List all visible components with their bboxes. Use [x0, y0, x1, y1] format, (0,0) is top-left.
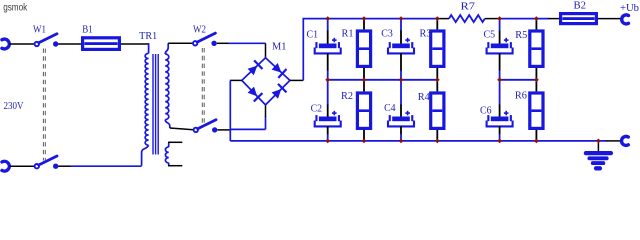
- wire C4 top lead: [400, 80, 402, 105]
- capacitor C3: [405, 39, 410, 41]
- wire to bridge AC top: [265, 43, 267, 58]
- svg-text:R6: R6: [515, 91, 527, 102]
- svg-text:C3: C3: [381, 29, 393, 40]
- svg-text:R3: R3: [420, 29, 432, 40]
- wire R5 bottom lead: [535, 68, 537, 80]
- resistor R1: [357, 31, 370, 66]
- mechanical link W1 (dashed): [42, 49, 44, 161]
- wire fuse B2 to +Ub terminal: [598, 18, 622, 20]
- wire rail to fuse B2: [549, 18, 560, 20]
- resistor R4: [431, 93, 444, 128]
- wire C2 bottom lead: [327, 126, 329, 134]
- wire input top to W1: [10, 43, 35, 45]
- wire input bottom to W1: [10, 165, 35, 167]
- wire C4 bottom lead: [400, 126, 402, 134]
- transformer TR1 core: [152, 54, 154, 155]
- wire R4 top lead: [436, 80, 438, 92]
- capacitor C2: [332, 112, 337, 114]
- capacitor C4: [405, 112, 410, 114]
- wire C2 top lead: [327, 80, 329, 105]
- wire C3 bottom lead: [400, 53, 402, 71]
- svg-text:B1: B1: [82, 25, 93, 36]
- stub wire auxiliary bottom: [168, 165, 182, 167]
- wire C6 top lead: [499, 80, 501, 105]
- svg-text:R1: R1: [342, 29, 354, 40]
- wire R1 bottom lead: [363, 68, 365, 80]
- diode M1 upper-left: [248, 66, 258, 76]
- resistor R3: [431, 31, 444, 66]
- transformer TR1 primary winding: [148, 43, 150, 53]
- wire C1 bottom lead: [327, 53, 329, 71]
- wire C5 bottom lead: [499, 53, 501, 71]
- switch W2 pole B: [194, 128, 198, 132]
- top rail (+): [303, 18, 440, 20]
- svg-text:R5: R5: [515, 30, 527, 41]
- diode M1 upper-right: [272, 63, 282, 73]
- svg-text:B2: B2: [574, 1, 587, 12]
- fuse B1: [83, 38, 120, 50]
- svg-text:R4: R4: [418, 92, 430, 103]
- wire R4 bottom lead: [436, 130, 438, 141]
- resistor R6: [530, 93, 543, 128]
- middle rail segment 1: [328, 79, 438, 81]
- svg-text:W2: W2: [193, 24, 206, 35]
- terminal +Ub: [622, 15, 629, 24]
- svg-text:C4: C4: [384, 103, 396, 114]
- wire R2 bottom lead: [363, 130, 365, 141]
- wire C5 top lead: [499, 19, 501, 31]
- wire bridge minus to bottom rail: [230, 79, 242, 81]
- svg-text:W1: W1: [33, 24, 46, 35]
- wire C6 bottom lead: [499, 126, 501, 134]
- switch W1 pole A: [35, 42, 39, 46]
- svg-text:C2: C2: [311, 103, 323, 114]
- wire C1 top lead: [327, 19, 329, 31]
- junction dots top rail: [325, 16, 330, 21]
- diode M1 lower-right: [272, 89, 282, 99]
- wire R1 top lead: [363, 19, 365, 30]
- wire R3 top lead: [436, 19, 438, 30]
- wire fuse B1 to transformer: [121, 43, 149, 45]
- capacitor C1: [332, 39, 337, 41]
- wire secondary to W2 bottom: [170, 128, 193, 130]
- wire W2 top to bridge (blue): [229, 42, 266, 44]
- svg-text:R7: R7: [461, 2, 476, 13]
- transformer TR1 auxiliary winding: [168, 143, 170, 147]
- svg-text:+Ub: +Ub: [620, 3, 639, 14]
- wire R3 bottom lead: [436, 68, 438, 80]
- svg-text:TR1: TR1: [139, 31, 157, 42]
- stub wire auxiliary top: [168, 141, 182, 143]
- wire secondary to W2 top: [168, 42, 193, 44]
- wire W2 bottom to bridge (black): [217, 129, 231, 131]
- terminal 230V line bottom: [2, 161, 9, 171]
- switch W1 pole B: [35, 164, 39, 168]
- capacitor C5: [504, 39, 509, 41]
- junction dots middle rail: [325, 77, 330, 82]
- svg-text:C5: C5: [484, 30, 496, 41]
- fuse B2: [561, 14, 597, 24]
- resistor R7 zigzag: [449, 15, 485, 22]
- bottom rail (0V): [230, 140, 606, 142]
- svg-text:M1: M1: [272, 41, 287, 52]
- svg-text:gsmok: gsmok: [3, 2, 28, 13]
- resistor R2: [357, 93, 370, 128]
- mechanical link W2 (dashed): [201, 48, 203, 125]
- junction dots bottom rail: [325, 138, 330, 143]
- ground symbol stem: [597, 142, 599, 151]
- wire W1 bottom to transformer: [58, 165, 71, 167]
- terminal 230V line top: [2, 39, 9, 49]
- wire R2 top lead: [363, 80, 365, 92]
- top rail after R7: [499, 18, 550, 20]
- middle rail segment 2: [500, 79, 537, 81]
- wire R7 right lead: [485, 18, 500, 20]
- wire rail to 0V terminal: [606, 140, 621, 142]
- terminal 0V: [622, 136, 629, 145]
- wire W1 to fuse B1: [58, 43, 81, 45]
- wire R5 top lead: [535, 19, 537, 30]
- wire R6 bottom lead: [535, 130, 537, 141]
- bridge rectifier M1 diamond: [242, 58, 290, 105]
- diode M1 lower-left: [248, 87, 258, 97]
- capacitor C6: [504, 112, 509, 114]
- resistor R5: [530, 31, 543, 66]
- wire bridge plus to top rail: [290, 79, 303, 81]
- svg-text:R2: R2: [341, 91, 353, 102]
- wire to bridge AC bottom: [265, 117, 267, 130]
- ground symbol bars: [586, 151, 611, 155]
- wire W2 bottom to bridge (blue): [231, 128, 266, 130]
- svg-text:C6: C6: [480, 106, 492, 117]
- wire R6 top lead: [535, 80, 537, 92]
- switch W2 pole A: [193, 41, 197, 45]
- transformer TR1 secondary winding: [165, 43, 168, 54]
- wire W2 top to bridge (black): [217, 42, 229, 44]
- svg-text:C1: C1: [307, 29, 319, 40]
- wire C3 top lead: [400, 19, 402, 31]
- svg-text:230V: 230V: [4, 101, 25, 112]
- wire R7 left lead: [437, 18, 449, 20]
